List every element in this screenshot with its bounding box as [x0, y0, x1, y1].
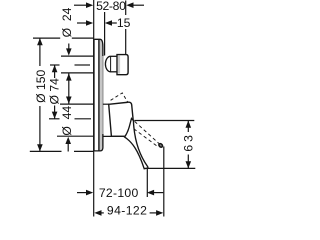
dia24 bottom extension line — [61, 72, 94, 74]
dimension 63 bottom arrow — [186, 161, 192, 168]
svg-text:72-100: 72-100 — [99, 186, 139, 200]
dimension 52-80 line left leader and arrow — [74, 4, 87, 6]
dia150 bottom arrow — [37, 144, 43, 151]
cartridge box inner shading — [118, 56, 120, 74]
dimension 94-122 right tail and arrow — [150, 212, 158, 214]
dimension 94-122 left arrow and tail — [94, 210, 101, 216]
dia150 top arrow — [37, 38, 43, 45]
dia74 dimension line upper — [54, 65, 56, 78]
dia24 top extension line — [61, 55, 94, 57]
dashed open lever upper edge — [135, 121, 159, 143]
dimension 52-80 right arrow and leader — [126, 2, 133, 8]
svg-text:Ø 44: Ø 44 — [60, 106, 74, 136]
escutcheon plate back edge — [93, 39, 95, 151]
escutcheon plate outer contour gray mid — [102, 44, 104, 146]
dia24 bottom outside arrow — [66, 73, 72, 80]
dia74 top extension segments — [50, 64, 60, 66]
svg-text:Ø 24: Ø 24 — [60, 7, 74, 37]
extension line B cartridge front — [125, 1, 127, 16]
dimension 63 top extension line — [134, 120, 194, 122]
shared tail between dia24 and dia44 — [68, 74, 70, 104]
svg-text:Ø 150: Ø 150 — [34, 69, 48, 102]
extension line C plate front plane — [104, 12, 106, 56]
dia150 dimension line upper — [39, 38, 41, 66]
svg-text:Ø 74: Ø 74 — [48, 78, 62, 105]
dashed open lever lower edge — [134, 129, 157, 146]
svg-text:94-122: 94-122 — [107, 204, 147, 218]
dia44 top extension line — [60, 103, 94, 105]
hub and sleeve bottom line — [103, 135, 129, 137]
escutcheon plate outer contour top corner — [94, 39, 103, 56]
svg-text:15: 15 — [117, 16, 131, 30]
dimension 15 left leader and arrow — [77, 22, 87, 24]
dimension 63 bottom extension line — [148, 167, 195, 169]
svg-text:63: 63 — [182, 132, 196, 152]
dimension 63 line lower segment — [187, 155, 189, 169]
extension line E dashed lever tip — [163, 147, 165, 217]
wall reference line A — [93, 0, 95, 217]
dimension 15 right arrow — [105, 20, 112, 26]
dia44 bottom arrow and tail — [65, 137, 71, 144]
dimension 63 top arrow — [186, 121, 192, 128]
dimension 72-100 right arrow and leader — [147, 190, 154, 196]
dia74 top arrow — [52, 65, 58, 72]
cartridge back ellipse cap — [105, 56, 110, 72]
cartridge front box — [117, 55, 128, 75]
dia44 top outside arrow — [66, 97, 72, 104]
dia150 dimension line lower — [39, 106, 41, 152]
escutcheon plate shading band — [100, 40, 103, 151]
lever blade — [125, 119, 148, 169]
dia24 upper tail and arrow — [68, 44, 70, 50]
cartridge cap junction line — [110, 56, 112, 72]
dashed raised lever back tent — [111, 93, 128, 102]
dia74 bottom arrow — [52, 112, 58, 119]
dia44 bottom extension line — [57, 135, 94, 137]
escutcheon plate inner front line — [98, 40, 100, 151]
svg-text:52-80: 52-80 — [96, 0, 126, 13]
extension line D solid lever tip — [146, 169, 148, 198]
cartridge small cylinder bottom — [111, 71, 118, 73]
dashed open lever tip ellipse — [158, 143, 163, 148]
lever hub body — [109, 102, 134, 136]
dia74 bottom extension segments — [49, 118, 60, 120]
dia74 dimension line lower — [54, 106, 56, 119]
dimension 72-100 left leader and arrow — [77, 192, 87, 194]
cartridge small cylinder top — [111, 55, 118, 57]
escutcheon plate outer contour bottom corner — [94, 134, 103, 151]
dia150 bottom extension line — [30, 150, 62, 152]
dimension 63 line upper segment — [187, 121, 189, 133]
dia150 top extension line — [33, 37, 60, 39]
sleeve top line — [103, 103, 109, 105]
